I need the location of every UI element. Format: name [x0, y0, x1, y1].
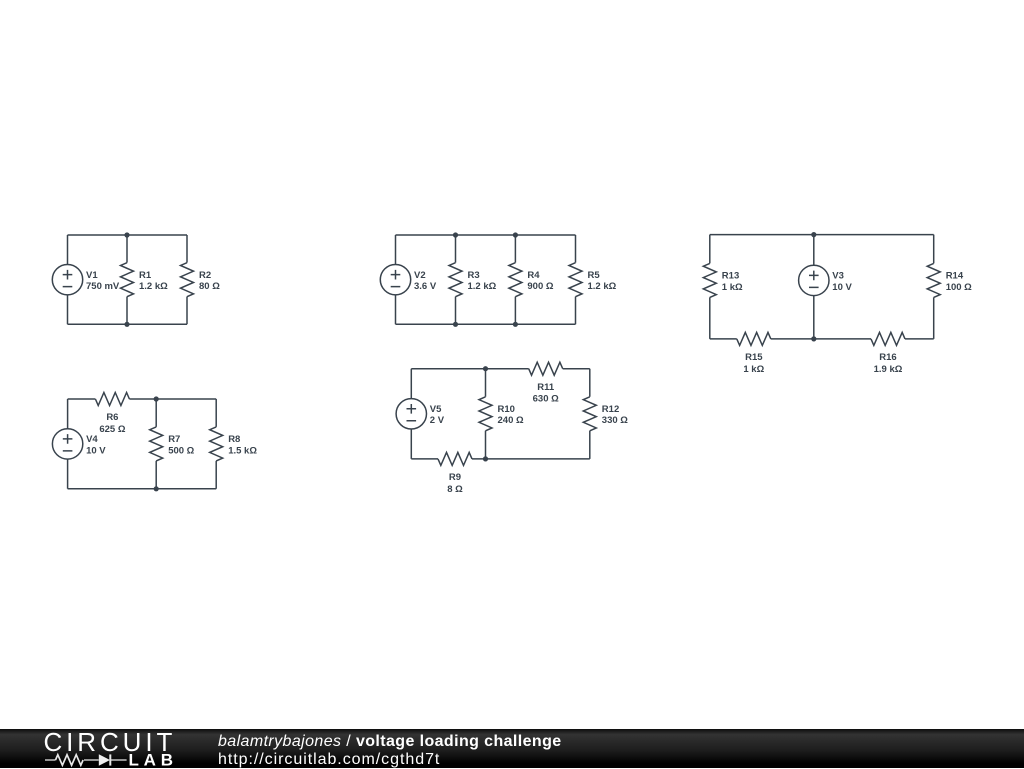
- label R7 value: [168, 434, 194, 456]
- label R14 value: [946, 271, 972, 293]
- label V2 value: [414, 270, 437, 292]
- svg-text:V1: V1: [86, 270, 98, 281]
- footer line 1: [218, 733, 562, 751]
- resistor R3: [449, 263, 462, 297]
- svg-text:V3: V3: [832, 271, 844, 282]
- resistor R7: [150, 427, 163, 461]
- wire R5 leads: [575, 235, 577, 324]
- svg-text:R1: R1: [139, 270, 152, 281]
- svg-text:2 V: 2 V: [430, 415, 445, 426]
- resistor R1: [121, 263, 134, 297]
- svg-text:625 Ω: 625 Ω: [99, 424, 125, 435]
- junction node F: [811, 336, 816, 341]
- svg-text:V4: V4: [86, 434, 98, 445]
- label V4 value: [86, 434, 106, 456]
- svg-text:R16: R16: [879, 352, 896, 363]
- svg-text:3.6 V: 3.6 V: [414, 281, 437, 292]
- svg-text:240 Ω: 240 Ω: [498, 415, 524, 426]
- wire R13 leads: [709, 235, 711, 339]
- wire V3 leads: [813, 235, 815, 339]
- svg-text:1 kΩ: 1 kΩ: [722, 282, 743, 293]
- junction node H: [154, 486, 159, 491]
- svg-text:V5: V5: [430, 404, 442, 415]
- resistor R8: [210, 427, 223, 461]
- svg-text:1.2 kΩ: 1.2 kΩ: [139, 281, 168, 292]
- svg-text:330 Ω: 330 Ω: [602, 415, 628, 426]
- label R5 value: [588, 270, 617, 292]
- label R4 value: [527, 270, 553, 292]
- label R8 value: [228, 434, 257, 456]
- wire net C1 bottom rail: [68, 323, 188, 325]
- label R11 value: [533, 382, 559, 405]
- resistor R12: [583, 397, 596, 431]
- svg-text:500 Ω: 500 Ω: [168, 445, 194, 456]
- svg-text:1.9 kΩ: 1.9 kΩ: [874, 364, 903, 375]
- label R6 value: [99, 412, 125, 435]
- svg-text:R10: R10: [498, 404, 515, 415]
- svg-text:630 Ω: 630 Ω: [533, 394, 559, 405]
- wire R3 leads: [455, 235, 457, 324]
- wire net C5 top rail: [411, 368, 590, 370]
- wire V1 leads: [67, 235, 69, 324]
- resistor R5: [569, 263, 582, 297]
- svg-text:R12: R12: [602, 404, 619, 415]
- resistor R2: [181, 263, 194, 297]
- wire net C1 top rail: [68, 234, 188, 236]
- svg-text:100 Ω: 100 Ω: [946, 282, 972, 293]
- svg-text:R4: R4: [527, 270, 540, 281]
- label R9 value: [447, 472, 463, 495]
- footer line 2: [218, 751, 440, 769]
- label R15 value: [743, 352, 764, 375]
- junction node C: [453, 232, 458, 237]
- label V1 value: [86, 270, 120, 292]
- label R16 value: [874, 352, 903, 375]
- svg-text:R11: R11: [537, 382, 555, 393]
- label R13 value: [722, 271, 743, 293]
- resistor R16: [871, 332, 905, 345]
- svg-text:LAB: LAB: [129, 751, 178, 769]
- svg-text:R9: R9: [449, 472, 461, 483]
- svg-text:1.5 kΩ: 1.5 kΩ: [228, 445, 257, 456]
- junction node E: [811, 232, 816, 237]
- resistor R11: [529, 362, 563, 375]
- wire V4 leads: [67, 399, 69, 489]
- svg-text:10 V: 10 V: [832, 282, 852, 293]
- logo diode triangle: [99, 754, 110, 766]
- svg-text:8 Ω: 8 Ω: [447, 484, 463, 495]
- resistor R9: [438, 452, 472, 465]
- label R3 value: [468, 270, 497, 292]
- svg-text:R5: R5: [588, 270, 601, 281]
- wire R7 leads: [155, 399, 157, 489]
- wire net C5 bottom rail: [411, 458, 590, 460]
- wire R12 leads: [589, 369, 591, 459]
- junction node J: [483, 366, 488, 371]
- junction node B: [124, 322, 129, 327]
- svg-text:900 Ω: 900 Ω: [527, 281, 553, 292]
- resistor R14: [927, 263, 940, 297]
- logo resistor-diode symbol: [45, 754, 127, 765]
- label R10 value: [498, 404, 524, 426]
- wire net C2 bottom rail: [396, 323, 576, 325]
- svg-text:1 kΩ: 1 kΩ: [743, 364, 764, 375]
- svg-text:R6: R6: [106, 412, 118, 423]
- junction node K: [483, 456, 488, 461]
- svg-text:R8: R8: [228, 434, 240, 445]
- junction node D2: [513, 322, 518, 327]
- svg-text:1.2 kΩ: 1.2 kΩ: [468, 281, 497, 292]
- svg-text:V2: V2: [414, 270, 426, 281]
- svg-text:80 Ω: 80 Ω: [199, 281, 220, 292]
- junction node D: [453, 322, 458, 327]
- junction node A: [124, 232, 129, 237]
- voltage source V2: [380, 264, 410, 294]
- wire R4 leads: [514, 235, 516, 324]
- wire R1 leads: [126, 235, 128, 324]
- junction node C2: [513, 232, 518, 237]
- wire net C4 top rail: [68, 398, 217, 400]
- wire R2 leads: [186, 235, 188, 324]
- svg-text:R15: R15: [745, 352, 763, 363]
- wire net C4 bottom rail: [68, 488, 217, 490]
- voltage source V4: [52, 429, 82, 459]
- junction node G: [154, 396, 159, 401]
- resistor R4: [509, 263, 522, 297]
- svg-text:1.2 kΩ: 1.2 kΩ: [588, 281, 617, 292]
- resistor R15: [737, 332, 771, 345]
- wire R10 leads: [485, 369, 487, 459]
- svg-text:10 V: 10 V: [86, 445, 106, 456]
- wire V5 leads: [410, 369, 412, 459]
- resistor R6: [95, 393, 129, 406]
- resistor R10: [479, 397, 492, 431]
- voltage source V5: [396, 399, 426, 429]
- label R12 value: [602, 404, 628, 426]
- label V5 value: [430, 404, 445, 426]
- label R1 value: [139, 270, 168, 292]
- svg-text:R13: R13: [722, 271, 739, 282]
- voltage source V1: [52, 264, 82, 294]
- wire net C3 bottom rail: [710, 338, 934, 340]
- label V3 value: [832, 271, 852, 293]
- wire R8 leads: [215, 399, 217, 489]
- svg-text:750 mV: 750 mV: [86, 281, 120, 292]
- wire net C2 top rail: [396, 234, 576, 236]
- svg-text:R14: R14: [946, 271, 964, 282]
- footer bar: [0, 729, 1024, 768]
- label R2 value: [199, 270, 220, 292]
- svg-text:R3: R3: [468, 270, 480, 281]
- wire R14 leads: [933, 235, 935, 339]
- svg-text:R2: R2: [199, 270, 211, 281]
- CircuitLab logo: [0, 729, 190, 768]
- wire net C3 top rail: [710, 234, 934, 236]
- svg-text:R7: R7: [168, 434, 180, 445]
- voltage source V3: [799, 265, 829, 295]
- wire V2 leads: [395, 235, 397, 324]
- resistor R13: [703, 263, 716, 297]
